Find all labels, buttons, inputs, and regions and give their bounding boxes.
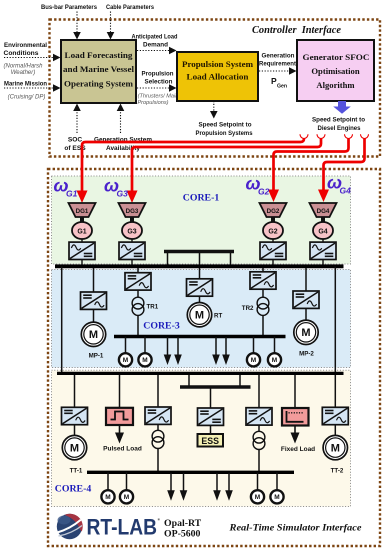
wire stub m7 xyxy=(257,472,259,490)
wire to MP-1 motor xyxy=(93,310,95,323)
load arrow a8 xyxy=(225,473,233,501)
svg-text:OP-5600: OP-5600 xyxy=(164,529,201,540)
svg-text:Operating System: Operating System xyxy=(64,79,134,89)
svg-text:G4: G4 xyxy=(340,186,352,196)
motor small m3 xyxy=(247,353,260,366)
wire red w1 to DG1 xyxy=(82,139,304,195)
svg-text:Speed Setpoint to: Speed Setpoint to xyxy=(199,122,252,129)
wire stub m8 xyxy=(276,472,278,490)
wire dashed propulsion selection arrow xyxy=(137,87,169,89)
CORE-3 region xyxy=(52,270,351,368)
bus CORE-4 lower xyxy=(87,471,294,474)
wire TR1 drop xyxy=(137,268,139,273)
wire xfmr branch drop xyxy=(157,375,159,407)
svg-text:Fixed Load: Fixed Load xyxy=(281,446,315,453)
motor MP-1 xyxy=(81,322,105,346)
wire dotted env arrow xyxy=(4,57,53,59)
svg-text:Bus-bar Parameters: Bus-bar Parameters xyxy=(41,4,97,11)
svg-text:TT-1: TT-1 xyxy=(70,468,83,475)
svg-text:Requirement: Requirement xyxy=(259,61,297,68)
svg-text:CORE-3: CORE-3 xyxy=(143,321,180,332)
logo RT-LAB globe xyxy=(57,514,83,539)
controller interface dashed box xyxy=(50,20,381,157)
omega G3 xyxy=(104,176,128,199)
wire stub m2 xyxy=(144,337,146,354)
svg-text:Optimisation: Optimisation xyxy=(311,66,359,76)
svg-text:Weather): Weather) xyxy=(11,70,36,76)
CORE-4 region xyxy=(52,370,351,506)
svg-text:Marine Mission: Marine Mission xyxy=(4,81,47,88)
svg-text:Demand: Demand xyxy=(143,42,168,49)
tie short bus CORE-1 xyxy=(164,250,234,254)
omega G4 xyxy=(327,173,351,196)
svg-text:G1: G1 xyxy=(66,189,78,199)
wire G3 to converter xyxy=(131,239,133,243)
svg-text:Generation: Generation xyxy=(262,53,295,60)
svg-text:Propulsion Systems: Propulsion Systems xyxy=(196,130,253,137)
wire TT-1 drop xyxy=(74,375,76,407)
diesel engine DG1 xyxy=(69,203,96,223)
converter DC/AC xfmr branch xyxy=(145,407,171,424)
generator G2 xyxy=(263,222,283,239)
svg-text:Algorithm: Algorithm xyxy=(316,80,355,90)
svg-text:Diesel Engines: Diesel Engines xyxy=(318,125,361,132)
svg-text:ESS: ESS xyxy=(201,436,219,446)
wire red w4 to DG4 xyxy=(324,139,365,194)
omega G2 xyxy=(246,174,270,197)
wire stub right xyxy=(239,375,241,387)
node hook h4 xyxy=(361,134,369,138)
wire right tie bus1 to bus2 xyxy=(334,267,336,374)
svg-text:Pulsed Load: Pulsed Load xyxy=(103,446,142,453)
wire to ESS xyxy=(210,425,212,434)
wire stub m5 xyxy=(107,472,109,490)
wire TR drop CORE-4 xyxy=(258,375,260,408)
svg-text:Conditions: Conditions xyxy=(4,50,39,57)
svg-text:G3: G3 xyxy=(117,189,129,199)
svg-text:Propulsions): Propulsions) xyxy=(137,100,168,106)
fixed load block xyxy=(282,408,309,426)
wire dotted cable params arrow xyxy=(110,12,112,33)
wire converter to bus1 xyxy=(131,260,133,267)
node hook h2 xyxy=(317,134,325,138)
wire to transformer xyxy=(157,424,159,430)
omega G1 xyxy=(54,176,78,199)
load arrow pulsed xyxy=(119,425,121,434)
wire G1 to converter xyxy=(81,239,83,243)
motor small m6 xyxy=(120,490,133,503)
svg-text:G3: G3 xyxy=(127,229,136,236)
node hook h1 xyxy=(300,134,308,138)
wire stub m1 xyxy=(125,337,127,354)
converter AC/DC G1 xyxy=(69,242,95,259)
wire stub left xyxy=(188,375,190,387)
svg-text:Real-Time Simulator Interface: Real-Time Simulator Interface xyxy=(228,523,362,534)
motor small m5 xyxy=(101,490,114,503)
load arrow a6 xyxy=(180,473,188,501)
wire to TR1 xyxy=(137,290,139,298)
wire dotted marine arrow xyxy=(4,87,53,89)
block propulsion system load allocation U2 xyxy=(177,52,258,101)
motor small m4 xyxy=(268,353,281,366)
svg-text:DG2: DG2 xyxy=(267,208,280,215)
pulsed load block xyxy=(106,408,133,425)
converter DC/AC TT-1 xyxy=(62,407,88,424)
wire stub m3 xyxy=(253,337,255,354)
wire fixed load drop xyxy=(294,375,296,408)
wire left tie bus1 to bus2 xyxy=(61,267,63,374)
svg-text:(Cruising/ DP): (Cruising/ DP) xyxy=(8,95,46,101)
bus 2 main xyxy=(57,372,344,375)
svg-text:Gen: Gen xyxy=(277,84,287,90)
wire TR2 to lower bus xyxy=(262,315,264,335)
wire converter to bus1 xyxy=(322,260,324,267)
converter DC/AC MP-1 xyxy=(81,292,107,309)
svg-text:G2: G2 xyxy=(258,187,270,197)
generator G4 xyxy=(313,222,333,239)
motor small m7 xyxy=(251,490,264,503)
wire transformer to lower bus xyxy=(157,448,159,471)
wire G2 to converter xyxy=(272,239,274,243)
wire converter to bus1 xyxy=(81,260,83,267)
transformer CORE-4 right xyxy=(253,431,265,449)
wire to TT-1 motor xyxy=(74,425,76,435)
converter DC/AC RT xyxy=(187,279,213,296)
svg-text:RT-LAB: RT-LAB xyxy=(87,515,158,540)
block load forecasting U1 xyxy=(61,40,136,103)
svg-text:G2: G2 xyxy=(268,229,277,236)
motor TT-2 xyxy=(323,435,347,459)
load arrow a4 xyxy=(222,337,230,365)
wire TR2 drop xyxy=(262,268,264,272)
svg-text:Propulsion System: Propulsion System xyxy=(182,60,253,69)
wire red w3 to DG2 xyxy=(274,139,349,194)
svg-text:Speed Setpoint to: Speed Setpoint to xyxy=(312,117,365,124)
wire stub right xyxy=(230,252,232,267)
svg-text:MP-1: MP-1 xyxy=(89,353,104,360)
converter DC/AC MP-2 xyxy=(293,291,319,308)
generator G3 xyxy=(122,222,142,239)
transformer CORE-4 left xyxy=(152,430,164,448)
wire to MP-2 motor xyxy=(305,309,307,321)
svg-text:CORE-4: CORE-4 xyxy=(55,484,92,495)
wire MP-1 drop xyxy=(93,268,95,292)
svg-text:Load Allocation: Load Allocation xyxy=(187,73,249,82)
diesel engine DG2 xyxy=(260,203,287,223)
wire dashed anticipated arrow xyxy=(137,50,169,52)
converter DC/AC TR1 xyxy=(125,273,151,290)
wire transformer to lower bus xyxy=(258,449,260,471)
transformer TR2 xyxy=(257,297,269,315)
svg-text:DG3: DG3 xyxy=(126,208,139,215)
wire dashed speed setpoint propulsion arrow xyxy=(213,101,215,111)
motor TT-1 xyxy=(62,435,86,459)
generator G1 xyxy=(72,222,92,239)
converter AC/DC G3 xyxy=(119,242,145,259)
wire MP-2 drop xyxy=(305,268,307,291)
load arrow a2 xyxy=(174,337,182,365)
converter DC/AC TR2 xyxy=(250,272,276,289)
svg-text:(Thrusters/ Main: (Thrusters/ Main xyxy=(138,94,179,100)
svg-text:Environmental: Environmental xyxy=(4,42,47,49)
load arrow a7 xyxy=(213,473,221,501)
motor small m8 xyxy=(270,490,283,503)
wire G4 to converter xyxy=(322,239,324,243)
wire to RT motor xyxy=(199,296,201,302)
converter DC/AC TR CORE-4 xyxy=(246,408,272,425)
diesel engine DG3 xyxy=(119,203,146,223)
load arrow a3 xyxy=(212,337,220,365)
simulator interface dashed box xyxy=(48,169,380,546)
wire to TR2 xyxy=(262,289,264,297)
svg-text:Generator SFOC: Generator SFOC xyxy=(303,52,370,62)
wire stub m6 xyxy=(126,472,128,490)
svg-text:Opal-RT: Opal-RT xyxy=(164,518,202,529)
svg-text:G1: G1 xyxy=(77,229,86,236)
converter DC/AC TT-2 xyxy=(322,407,348,424)
motor small m2 xyxy=(138,353,151,366)
wire to TT-2 motor xyxy=(334,425,336,435)
svg-text:Selection: Selection xyxy=(145,79,173,86)
converter DC/DC ESS xyxy=(198,408,224,425)
svg-text:Controller Interface: Controller Interface xyxy=(252,24,341,36)
wire red w2 to DG3 xyxy=(132,139,321,195)
svg-text:and Marine Vessel: and Marine Vessel xyxy=(63,64,135,74)
svg-text:DG1: DG1 xyxy=(76,208,89,215)
diesel engine DG4 xyxy=(310,203,337,223)
wire stub m4 xyxy=(274,337,276,354)
motor small m1 xyxy=(119,353,132,366)
svg-text:TR1: TR1 xyxy=(147,304,159,311)
wire ESS drop xyxy=(210,387,212,408)
wire pulsed load drop xyxy=(119,375,121,408)
wire dotted SOC arrow xyxy=(76,112,78,133)
bus 1 main DC bus xyxy=(55,264,344,268)
wire TR1 to lower bus xyxy=(137,315,139,335)
wire dashed generation requirement arrow xyxy=(259,70,289,72)
wire center drop xyxy=(199,252,201,280)
wire converter to bus1 xyxy=(272,260,274,267)
load arrow a5 xyxy=(167,473,175,501)
svg-text:Propulsion: Propulsion xyxy=(142,71,174,78)
battery ESS xyxy=(198,434,224,447)
svg-text:RT: RT xyxy=(214,313,222,320)
svg-text:SOC: SOC xyxy=(68,137,83,144)
wire dotted bus-bar params arrow xyxy=(76,12,78,33)
svg-text:Cable Parameters: Cable Parameters xyxy=(106,4,154,11)
wire stub left xyxy=(167,252,169,267)
svg-text:Load Forecasting: Load Forecasting xyxy=(65,50,134,60)
svg-text:TR2: TR2 xyxy=(242,305,254,312)
tie short bus CORE-4 xyxy=(180,385,251,389)
motor RT xyxy=(187,303,211,327)
blue block arrow xyxy=(333,101,351,114)
load arrow fixed xyxy=(294,426,296,434)
load arrow a1 xyxy=(164,337,172,365)
svg-text:(Normal/Harsh: (Normal/Harsh xyxy=(3,64,43,70)
svg-text:CORE-1: CORE-1 xyxy=(183,193,220,204)
node hook h3 xyxy=(345,134,353,138)
block generator SFOC U3 xyxy=(297,40,374,101)
svg-text:G4: G4 xyxy=(318,229,327,236)
svg-text:MP-2: MP-2 xyxy=(299,351,314,358)
svg-text:Anticipated Load: Anticipated Load xyxy=(132,34,178,41)
wire dotted availability arrow xyxy=(120,112,122,133)
converter AC/DC G2 xyxy=(260,242,286,259)
bus CORE-3 lower xyxy=(114,335,286,338)
wire to transformer xyxy=(258,425,260,431)
transformer TR1 xyxy=(132,297,144,315)
converter AC/DC G4 xyxy=(310,242,336,259)
CORE-1 region xyxy=(52,176,351,264)
svg-text:TT-2: TT-2 xyxy=(331,468,344,475)
svg-text:DG4: DG4 xyxy=(317,208,330,215)
motor MP-2 xyxy=(294,320,318,344)
wire TT-2 drop xyxy=(334,375,336,407)
